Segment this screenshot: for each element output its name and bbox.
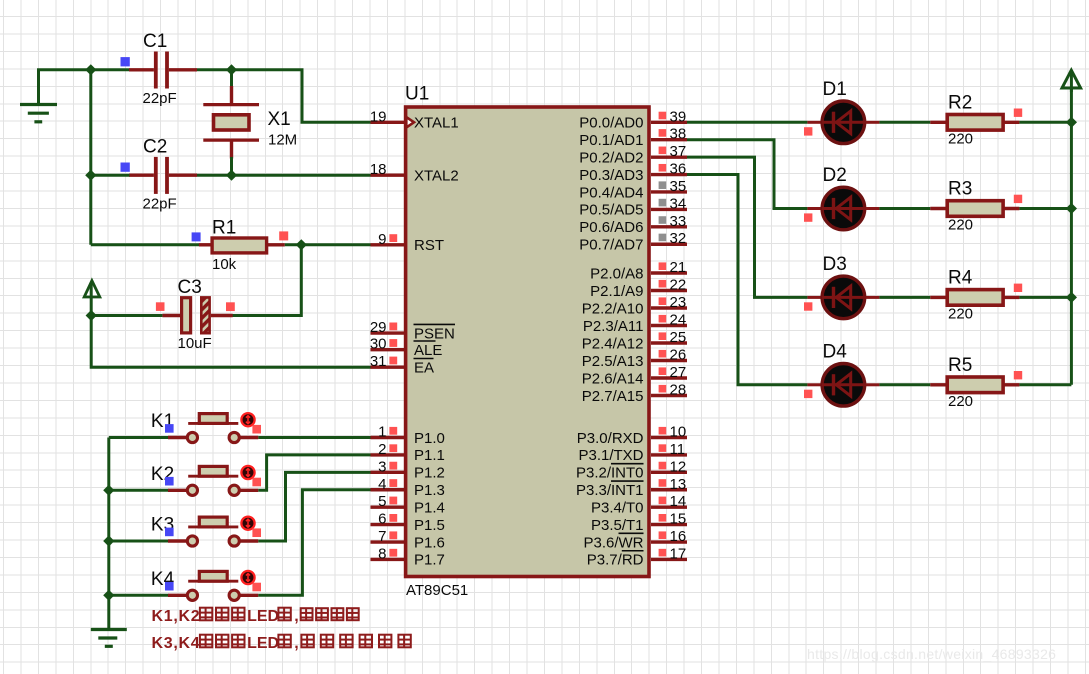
wire [37, 68, 130, 71]
overline [622, 550, 644, 552]
actuator K1 [241, 413, 254, 426]
node junction K3 [103, 535, 114, 546]
actuator K4 [241, 571, 254, 584]
svg-text:P3.0/RXD: P3.0/RXD [577, 430, 644, 447]
svg-text:R5: R5 [948, 355, 972, 376]
pin 35 [651, 190, 687, 193]
svg-text:P2.7/A15: P2.7/A15 [582, 388, 644, 405]
svg-text:P0.3/AD3: P0.3/AD3 [579, 167, 643, 184]
overline ALE [414, 340, 436, 342]
pin 19 [371, 121, 406, 124]
red marker K3 [252, 528, 261, 537]
pin 14 [651, 505, 687, 508]
actuator K3 [241, 517, 254, 530]
svg-text:EA: EA [414, 360, 434, 377]
svg-text:R4: R4 [948, 268, 973, 289]
LED D4 [807, 383, 821, 386]
svg-text:P2.3/A11: P2.3/A11 [583, 318, 644, 335]
pin 3 [371, 471, 406, 474]
svg-text:24: 24 [670, 312, 687, 329]
svg-text:,: , [294, 635, 298, 652]
ground [37, 70, 40, 105]
svg-text:RST: RST [414, 237, 444, 254]
LED D3 [807, 296, 821, 299]
pin 18 [371, 173, 406, 176]
svg-text:14: 14 [670, 493, 687, 510]
svg-text:10: 10 [670, 424, 687, 441]
node junction K4 [103, 590, 114, 601]
blue marker K1 [165, 424, 174, 433]
blue marker R1 [192, 232, 201, 241]
wire [1019, 296, 1071, 299]
switch K1 [168, 436, 186, 439]
wire [91, 243, 200, 246]
pin 39 [651, 121, 687, 124]
svg-text:38: 38 [670, 126, 687, 143]
pin 5 [371, 505, 406, 508]
svg-text:P0.0/AD0: P0.0/AD0 [579, 115, 643, 132]
power symbol [1062, 70, 1081, 88]
svg-text:P0.6/AD6: P0.6/AD6 [579, 219, 643, 236]
wire [91, 314, 162, 317]
svg-text:P0.4/AD4: P0.4/AD4 [579, 184, 643, 201]
svg-text:PSEN: PSEN [414, 325, 455, 342]
wire [258, 472, 370, 541]
wire [107, 438, 110, 630]
node junction K2 [103, 485, 114, 496]
blue marker C1 [121, 57, 130, 66]
svg-text:30: 30 [370, 336, 387, 353]
node junction C1-left rail [85, 64, 96, 75]
wire [258, 455, 370, 490]
svg-text:LED: LED [247, 608, 279, 625]
svg-text:P1.3: P1.3 [414, 482, 445, 499]
node junction C1-crystal [226, 64, 237, 75]
red marker C3 left [156, 302, 165, 311]
svg-text:25: 25 [670, 329, 687, 346]
overline [611, 463, 644, 465]
svg-text:2: 2 [378, 441, 386, 458]
wire [1019, 207, 1071, 210]
pin 16 [651, 540, 687, 543]
svg-text:13: 13 [670, 476, 687, 493]
red marker D1 [804, 127, 812, 135]
pin 21 [651, 271, 687, 274]
svg-text:P1.7: P1.7 [414, 552, 445, 569]
svg-text:P1.4: P1.4 [414, 499, 445, 516]
node junction rail D1 [1066, 117, 1077, 128]
switch K4 [168, 594, 186, 597]
svg-text:P0.5/AD5: P0.5/AD5 [579, 202, 643, 219]
LED D1 [807, 121, 821, 124]
svg-text:4: 4 [378, 476, 386, 493]
svg-text:36: 36 [670, 161, 687, 178]
wire [879, 296, 930, 299]
svg-text:39: 39 [670, 108, 687, 125]
blue marker C2 [121, 163, 130, 172]
resistor R3 [930, 207, 948, 210]
resistor R2 [930, 121, 948, 124]
overline [611, 480, 644, 482]
svg-text:35: 35 [670, 178, 687, 195]
svg-text:3: 3 [378, 458, 386, 475]
wire [91, 316, 370, 368]
svg-text:C3: C3 [178, 277, 202, 298]
svg-text:P2.6/A14: P2.6/A14 [582, 370, 644, 387]
svg-text:220: 220 [948, 306, 973, 323]
svg-text:17: 17 [670, 545, 687, 562]
wire [109, 540, 169, 543]
pin 26 [651, 359, 687, 362]
pin 8 [371, 558, 406, 561]
svg-text:C2: C2 [143, 137, 167, 158]
resistor R1 [199, 243, 213, 246]
resistor R4 [930, 296, 948, 299]
svg-text:10uF: 10uF [178, 335, 212, 352]
svg-text:https://blog.csdn.net/weixin_4: https://blog.csdn.net/weixin_46893326 [807, 646, 1056, 662]
wire [1019, 383, 1071, 386]
ground [91, 628, 127, 631]
capacitor C2 [129, 173, 154, 176]
wire [879, 383, 930, 386]
wire [91, 174, 130, 177]
svg-text:D3: D3 [823, 254, 847, 275]
red marker K1 [252, 425, 261, 434]
wire [687, 140, 807, 209]
wire [258, 436, 370, 439]
svg-text:32: 32 [670, 230, 687, 247]
svg-text:P0.1/AD1: P0.1/AD1 [579, 132, 643, 149]
node junction R1-RST [296, 239, 307, 250]
svg-text:22pF: 22pF [143, 90, 177, 107]
wire [879, 207, 930, 210]
svg-text:P2.0/A8: P2.0/A8 [590, 265, 643, 282]
svg-text:P1.6: P1.6 [414, 534, 445, 551]
svg-text:U1: U1 [405, 84, 429, 105]
svg-text:C1: C1 [143, 31, 167, 52]
svg-text:P3.4/T0: P3.4/T0 [591, 499, 644, 516]
svg-text:P3.3/INT1: P3.3/INT1 [576, 482, 644, 499]
svg-text:D1: D1 [823, 79, 847, 100]
svg-text:P0.2/AD2: P0.2/AD2 [579, 149, 643, 166]
svg-text:6: 6 [378, 511, 386, 528]
red marker R3 [1014, 195, 1022, 203]
svg-text:23: 23 [670, 294, 687, 311]
pin 11 [651, 453, 687, 456]
svg-text:16: 16 [670, 528, 687, 545]
svg-text:X1: X1 [268, 109, 291, 130]
svg-text:28: 28 [670, 382, 687, 399]
svg-text:P2.1/A9: P2.1/A9 [590, 283, 643, 300]
svg-text:7: 7 [378, 528, 386, 545]
svg-text:P2.5/A13: P2.5/A13 [582, 353, 644, 370]
pin 30 [371, 348, 406, 351]
svg-text:8: 8 [378, 545, 386, 562]
pin 29 [371, 331, 406, 334]
svg-text:R2: R2 [948, 93, 972, 114]
svg-text:P1.0: P1.0 [414, 430, 445, 447]
svg-text:,: , [294, 608, 298, 625]
crystal X1 [230, 70, 233, 88]
wire [258, 490, 370, 596]
svg-text:XTAL1: XTAL1 [414, 115, 459, 132]
svg-text:15: 15 [670, 511, 687, 528]
wire [197, 70, 371, 123]
svg-text:9: 9 [378, 231, 386, 248]
pin 23 [651, 306, 687, 309]
svg-text:34: 34 [670, 195, 687, 212]
svg-text:29: 29 [370, 319, 387, 336]
svg-text:P0.7/AD7: P0.7/AD7 [579, 237, 643, 254]
pin 2 [371, 453, 406, 456]
node junction rail D3 [1066, 292, 1077, 303]
svg-text:31: 31 [370, 353, 387, 370]
pin 27 [651, 376, 687, 379]
svg-text:1: 1 [378, 424, 386, 441]
svg-text:37: 37 [670, 143, 687, 160]
blue marker K4 [165, 582, 174, 591]
wire [687, 157, 807, 297]
red marker R2 [1014, 109, 1022, 117]
wire [109, 594, 169, 597]
svg-text:220: 220 [948, 393, 973, 410]
svg-text:K1,K2: K1,K2 [152, 608, 201, 625]
pin 12 [651, 471, 687, 474]
wire [109, 489, 169, 492]
pin 25 [651, 341, 687, 344]
pin 13 [651, 488, 687, 491]
switch K3 [168, 539, 186, 542]
svg-text:P3.2/INT0: P3.2/INT0 [576, 465, 644, 482]
pin 10 [651, 436, 687, 439]
node junction X1-C2 row [226, 170, 237, 181]
power rail [1070, 88, 1073, 385]
svg-text:22pF: 22pF [143, 196, 177, 213]
capacitor C3 [211, 314, 233, 317]
svg-text:11: 11 [670, 441, 686, 458]
op-amp U1 AT89C51 body [406, 107, 649, 577]
svg-text:P2.2/A10: P2.2/A10 [582, 300, 644, 317]
red marker K4 [252, 583, 261, 592]
svg-text:P2.4/A12: P2.4/A12 [582, 335, 644, 352]
pin 36 [651, 173, 687, 176]
node junction C3-power [86, 310, 97, 321]
LED D2 [807, 207, 821, 210]
svg-text:220: 220 [948, 131, 973, 148]
red marker R4 [1014, 284, 1022, 292]
svg-text:18: 18 [370, 161, 387, 178]
pin 32 [651, 243, 687, 246]
switch K2 [168, 489, 186, 492]
red marker R1 [279, 231, 288, 240]
svg-text:P1.2: P1.2 [414, 465, 445, 482]
wire [687, 121, 807, 124]
svg-text:10k: 10k [212, 256, 237, 273]
blue marker K3 [165, 528, 174, 537]
pin 9 [371, 243, 406, 246]
node junction C2-left rail [85, 170, 96, 181]
actuator K2 [241, 466, 254, 479]
wire [879, 121, 930, 124]
red marker D2 [804, 213, 812, 221]
svg-text:AT89C51: AT89C51 [406, 582, 468, 599]
svg-text:P1.1: P1.1 [414, 447, 445, 464]
svg-text:26: 26 [670, 347, 687, 364]
pin 34 [651, 208, 687, 211]
svg-text:12: 12 [670, 458, 687, 475]
overline PSEN [414, 323, 456, 325]
svg-text:21: 21 [670, 259, 687, 276]
svg-text:P3.5/T1: P3.5/T1 [591, 517, 644, 534]
power symbol [84, 281, 100, 297]
wire [89, 70, 92, 245]
svg-text:R3: R3 [948, 179, 972, 200]
svg-text:P3.7/RD: P3.7/RD [587, 552, 644, 569]
pin 17 [651, 558, 687, 561]
pin 15 [651, 523, 687, 526]
clock input arrow XTAL1 [406, 117, 414, 127]
pin 28 [651, 394, 687, 397]
overline [619, 532, 644, 534]
svg-text:LED: LED [247, 635, 279, 652]
pin 22 [651, 289, 687, 292]
pin 37 [651, 155, 687, 158]
svg-text:XTAL2: XTAL2 [414, 168, 459, 185]
pin 24 [651, 324, 687, 327]
svg-text:R1: R1 [212, 218, 236, 239]
svg-text:P1.5: P1.5 [414, 517, 445, 534]
svg-text:D2: D2 [823, 165, 847, 186]
svg-text:K3,K4: K3,K4 [152, 635, 201, 652]
svg-text:5: 5 [378, 493, 386, 510]
wire [109, 436, 169, 439]
wire [232, 245, 301, 316]
pin 38 [651, 138, 687, 141]
blue marker K2 [165, 477, 174, 486]
svg-text:220: 220 [948, 217, 973, 234]
pin 31 [371, 366, 406, 369]
wire [1019, 121, 1071, 124]
svg-text:ALE: ALE [414, 342, 442, 359]
resistor R5 [930, 383, 948, 386]
node junction rail D2 [1066, 203, 1077, 214]
svg-text:27: 27 [670, 364, 687, 381]
red marker D4 [804, 390, 812, 398]
pin 33 [651, 225, 687, 228]
red marker D3 [804, 302, 812, 310]
wire [285, 243, 371, 246]
svg-text:22: 22 [670, 277, 687, 294]
wire [687, 175, 807, 385]
capacitor C1 [129, 68, 154, 71]
red marker R5 [1014, 371, 1022, 379]
svg-text:33: 33 [670, 213, 687, 230]
red marker K2 [252, 478, 261, 487]
pin 7 [371, 540, 406, 543]
svg-text:19: 19 [370, 108, 387, 125]
pin 4 [371, 488, 406, 491]
red marker C3 right [226, 302, 235, 311]
svg-text:P3.1/TXD: P3.1/TXD [578, 447, 643, 464]
svg-text:12M: 12M [268, 132, 297, 149]
svg-text:D4: D4 [823, 341, 848, 362]
svg-text:P3.6/WR: P3.6/WR [583, 534, 643, 551]
overline EA [414, 358, 434, 360]
pin 1 [371, 436, 406, 439]
pin 6 [371, 523, 406, 526]
